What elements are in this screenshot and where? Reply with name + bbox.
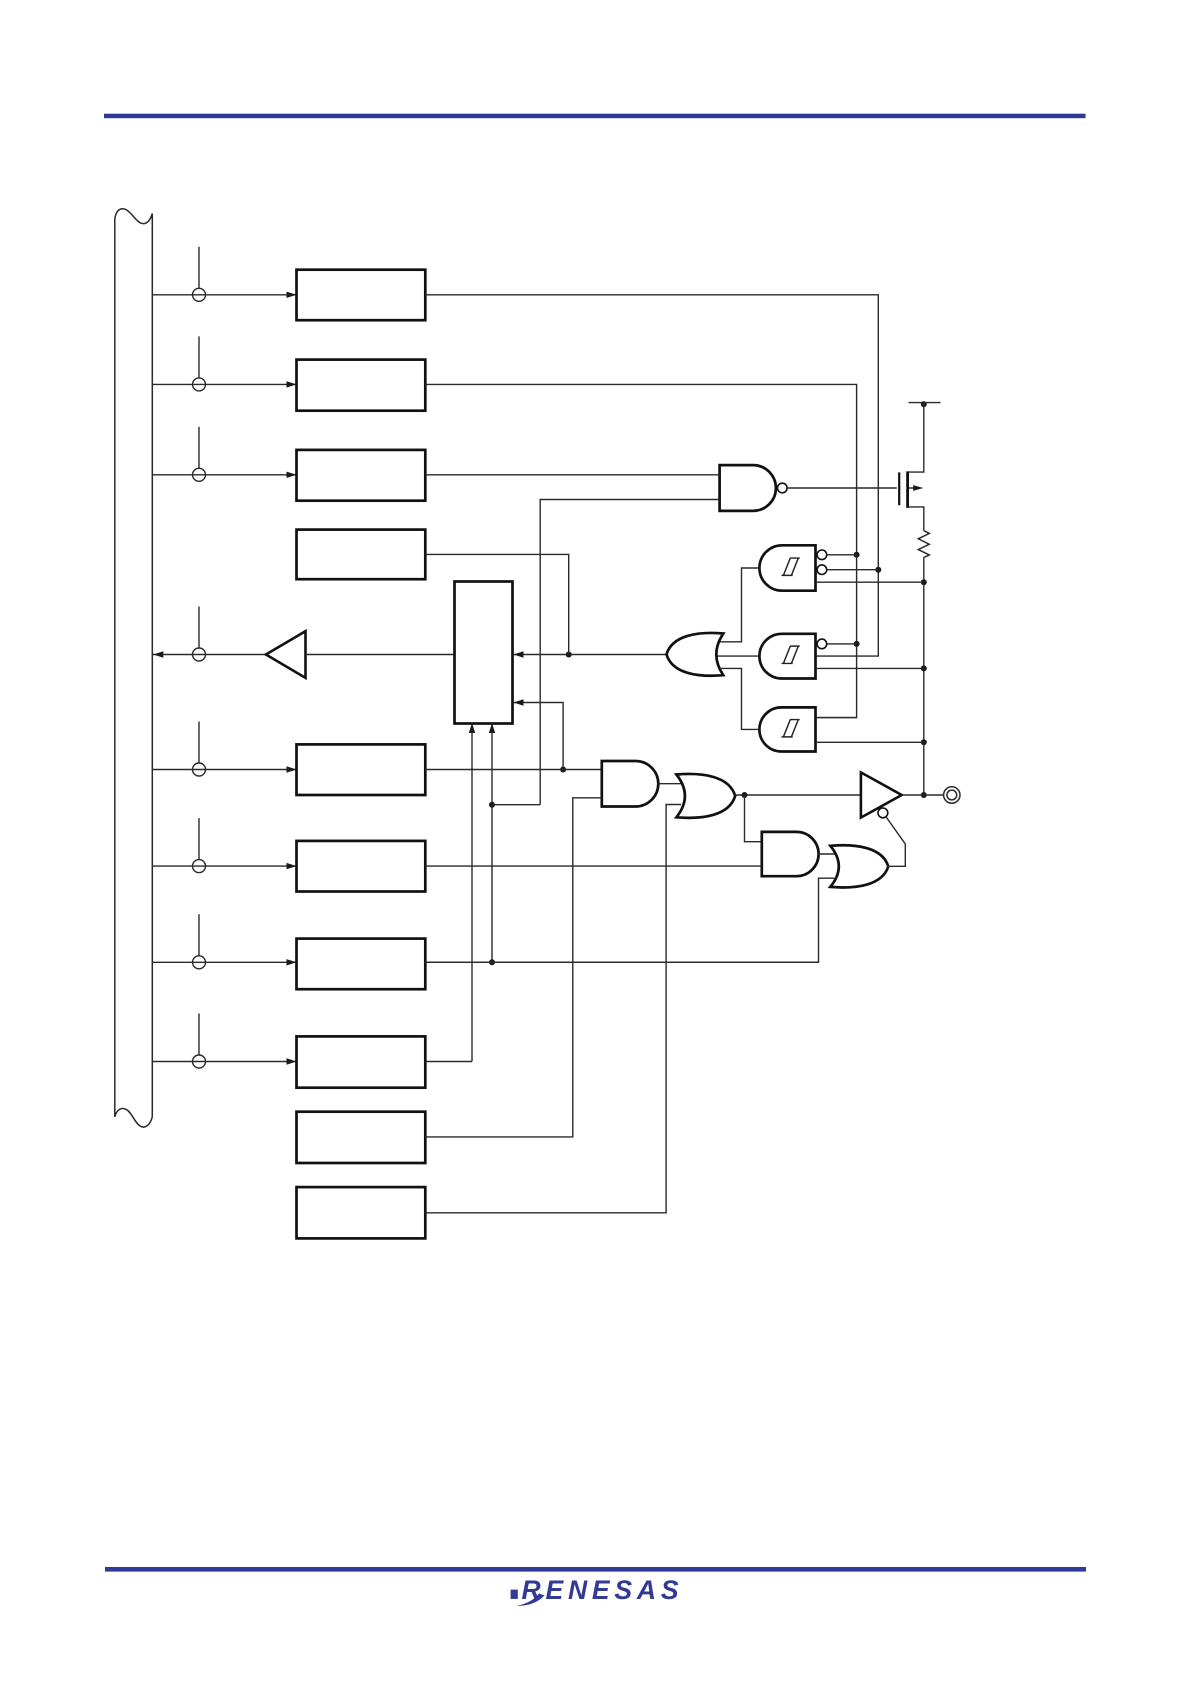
tall box bottom input from register 7 branch	[489, 723, 495, 965]
Schmitt AND gate G3	[759, 707, 815, 751]
bus tap wire to register 1	[152, 247, 296, 301]
OR gate O2	[830, 845, 888, 887]
wire O1 branch to AND A2	[745, 795, 762, 842]
register box 7	[297, 939, 426, 990]
AND gate A1	[602, 761, 659, 807]
register box 9	[297, 1112, 426, 1163]
G1 inverted input wire a	[827, 554, 857, 556]
bus tap wire to register 2	[152, 336, 296, 391]
wire NAND N1 output to MOSFET gate	[787, 487, 897, 489]
register 1 output feedback wire	[425, 295, 881, 656]
wire MOSFET drain to resistor	[907, 507, 924, 531]
register 4 output wire	[425, 554, 568, 654]
register box 3	[297, 450, 426, 501]
wire rail to MOSFET source	[907, 403, 924, 473]
power rail	[909, 401, 941, 407]
OR gate O1	[676, 774, 735, 818]
register 2 output feedback wire	[425, 384, 859, 717]
register box 8	[297, 1036, 426, 1087]
internal data bus	[115, 209, 153, 1127]
G3 input wire b from pin	[816, 741, 924, 743]
register box 2	[297, 360, 426, 411]
bus tap wire to register 6	[152, 818, 296, 873]
bus tap wire to register 3	[152, 427, 296, 482]
wire A1 to OR1	[658, 783, 684, 785]
Schmitt AND gate G1	[759, 545, 826, 590]
register 6 output wire to A2	[425, 865, 762, 867]
OR gate OR3 (left-pointing)	[667, 633, 724, 676]
Schmitt AND gate G2	[759, 634, 826, 679]
register box 5	[297, 744, 426, 795]
wire A2 to OR2	[819, 853, 839, 855]
AND gate A2	[762, 832, 819, 876]
svg-text:RENESAS: RENESAS	[522, 1575, 680, 1605]
register 7 output wire	[425, 961, 818, 963]
register box 4	[297, 530, 426, 580]
bus tap wire to register 8	[152, 1014, 296, 1069]
I/O pad P1	[944, 787, 960, 803]
G3 output wire to OR3	[720, 668, 759, 729]
node A wire (register7 branch to NAND path)	[492, 804, 540, 806]
U2 enable wire from O2	[886, 817, 905, 866]
wire U2 output to pad	[902, 794, 944, 796]
register 5 output wire	[425, 769, 602, 771]
G1 output wire to OR3	[720, 568, 759, 642]
bottom horizontal rule	[105, 1567, 1086, 1572]
G1 input wire c from pin	[816, 581, 924, 583]
top horizontal rule	[104, 114, 1086, 119]
wire tall box to read buffer	[306, 654, 455, 656]
NAND N1 lower input wire from node A	[540, 500, 719, 805]
register box 1	[297, 270, 426, 321]
A1 lower input wire from register 9	[425, 798, 602, 1137]
G2 input wire from pin	[816, 667, 924, 669]
tall box input wire from register 5 branch	[513, 699, 567, 772]
O1 lower input wire from register 10	[425, 805, 681, 1213]
G2 inverted input wire	[827, 643, 857, 645]
O2 lower input wire from register 7	[425, 878, 837, 962]
Renesas logo	[511, 1575, 680, 1606]
wire O1 output to output buffer	[735, 792, 861, 798]
tall box bottom input from register 8	[469, 723, 475, 1062]
NAND gate N1	[720, 465, 788, 511]
G1 inverted input wire b	[827, 569, 879, 571]
register box 10	[297, 1187, 426, 1238]
control block (tall box)	[455, 582, 513, 724]
pin net vertical wire	[921, 557, 927, 798]
G3 input wire a	[816, 717, 857, 719]
resistor R1	[918, 531, 929, 558]
transistor Q1 (p-ch MOSFET)	[899, 471, 923, 508]
output buffer U2	[861, 772, 902, 817]
wire OR3 output to tall box input (with register 4 branch junction)	[513, 651, 667, 657]
wire register 3 to NAND N1 top input	[425, 474, 719, 476]
bus tap wire to register 7	[152, 914, 296, 969]
bus tap wire to register 5	[152, 722, 296, 777]
read buffer U1 (left-pointing)	[266, 631, 306, 678]
register 8 output wire	[425, 1061, 472, 1063]
U2 enable bubble	[878, 808, 888, 818]
register box 6	[297, 841, 426, 892]
G2 output wire to OR3	[710, 655, 762, 657]
bus tap wire from read buffer	[152, 607, 265, 662]
